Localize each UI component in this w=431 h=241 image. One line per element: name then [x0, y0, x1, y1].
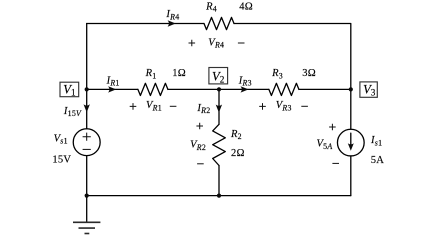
svg-text:2Ω: 2Ω: [231, 148, 245, 159]
svg-text:R1: R1: [145, 68, 157, 80]
svg-text:IR3: IR3: [238, 75, 252, 87]
svg-text:R3: R3: [271, 68, 283, 80]
svg-text:IR1: IR1: [106, 75, 120, 87]
svg-text:V5A: V5A: [317, 139, 333, 151]
svg-text:VR3: VR3: [276, 100, 292, 112]
svg-text:I15V: I15V: [63, 106, 82, 118]
svg-text:IR2: IR2: [196, 103, 210, 115]
svg-text:3Ω: 3Ω: [302, 68, 316, 79]
svg-text:V3: V3: [363, 83, 376, 98]
svg-text:VR1: VR1: [146, 100, 162, 112]
svg-text:IR4: IR4: [165, 9, 179, 21]
svg-text:5A: 5A: [371, 155, 385, 166]
svg-text:R4: R4: [205, 1, 217, 13]
svg-text:VR2: VR2: [190, 140, 206, 152]
svg-text:4Ω: 4Ω: [239, 1, 253, 12]
svg-text:V1: V1: [63, 83, 76, 98]
svg-text:Is1: Is1: [370, 135, 382, 147]
svg-text:V2: V2: [212, 70, 225, 85]
svg-text:R2: R2: [230, 129, 242, 141]
svg-text:1Ω: 1Ω: [172, 68, 186, 79]
svg-text:Vs1: Vs1: [54, 133, 68, 145]
svg-text:VR4: VR4: [208, 37, 224, 49]
svg-text:15V: 15V: [52, 155, 71, 166]
